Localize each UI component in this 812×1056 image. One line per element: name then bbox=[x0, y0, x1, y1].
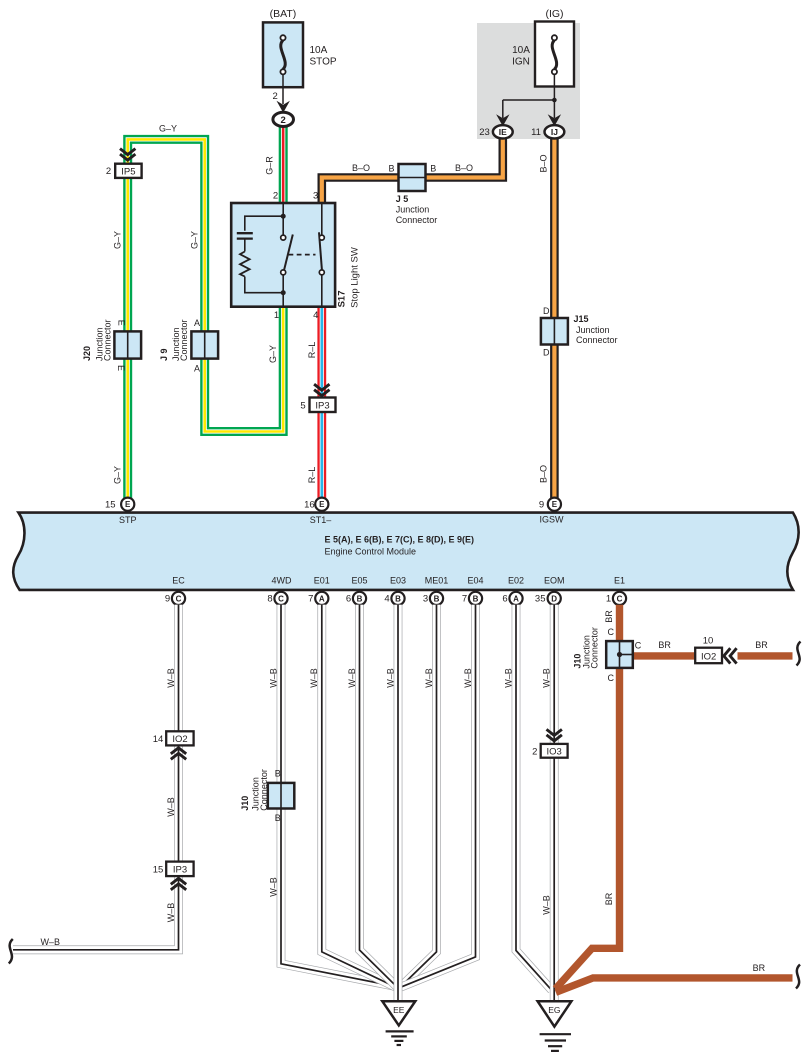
svg-text:W–B: W–B bbox=[309, 668, 319, 688]
svg-text:W–B: W–B bbox=[503, 668, 513, 688]
svg-text:1: 1 bbox=[606, 594, 611, 605]
svg-text:C: C bbox=[607, 673, 614, 683]
resistor symbol bbox=[240, 252, 250, 277]
wire W-B (E05 to EE) bbox=[360, 605, 398, 988]
svg-text:IE: IE bbox=[499, 127, 507, 137]
svg-text:BR: BR bbox=[753, 963, 766, 973]
svg-text:J20: J20 bbox=[82, 346, 92, 361]
svg-text:7: 7 bbox=[462, 594, 467, 605]
svg-text:B–O: B–O bbox=[539, 465, 549, 483]
stop light switch S17 bbox=[231, 203, 335, 307]
svg-text:8: 8 bbox=[267, 594, 272, 605]
svg-text:W–B: W–B bbox=[463, 668, 473, 688]
connector IJ oval bbox=[545, 125, 565, 138]
svg-text:W–B: W–B bbox=[347, 668, 357, 688]
svg-text:B–O: B–O bbox=[539, 154, 549, 172]
wire IG fuse to IE/IJ bbox=[553, 74, 555, 100]
svg-text:E: E bbox=[116, 320, 126, 326]
svg-text:D: D bbox=[551, 594, 557, 603]
wire BR (IO2 chevron to right break) bbox=[738, 652, 793, 659]
svg-text:EC: EC bbox=[172, 575, 185, 585]
svg-text:Stop Light SW: Stop Light SW bbox=[350, 247, 361, 308]
svg-text:BR: BR bbox=[755, 640, 768, 650]
svg-text:G–Y: G–Y bbox=[190, 231, 200, 249]
junction dot bbox=[552, 98, 557, 103]
svg-text:E: E bbox=[125, 500, 131, 509]
svg-text:4: 4 bbox=[384, 594, 389, 605]
wire BR (E1 to J10 down to EG) bbox=[556, 605, 620, 989]
fuse 10A STOP (BAT) bbox=[263, 8, 337, 87]
pin 15 E (STP) bbox=[121, 498, 134, 511]
wire break symbol right (BR lower) bbox=[796, 965, 800, 989]
svg-text:W–B: W–B bbox=[166, 668, 176, 688]
pin 35 D (EOM) bbox=[548, 592, 561, 605]
fuse 10A IGN (IG) bbox=[512, 8, 574, 87]
svg-text:C: C bbox=[176, 594, 182, 603]
pin 1 C (E1) bbox=[613, 592, 626, 605]
svg-text:Junction: Junction bbox=[576, 325, 610, 335]
svg-text:W–B: W–B bbox=[424, 668, 434, 688]
svg-text:E: E bbox=[319, 500, 325, 509]
svg-text:D: D bbox=[543, 347, 550, 357]
svg-text:E03: E03 bbox=[390, 575, 406, 585]
svg-text:(BAT): (BAT) bbox=[270, 8, 297, 20]
svg-text:B: B bbox=[275, 813, 281, 823]
svg-text:W–B: W–B bbox=[542, 895, 552, 915]
connector IP5 with arrow bbox=[120, 149, 135, 161]
svg-text:W–B: W–B bbox=[166, 903, 176, 923]
svg-text:B: B bbox=[357, 594, 363, 603]
svg-text:4WD: 4WD bbox=[272, 575, 293, 585]
svg-text:G–Y: G–Y bbox=[113, 231, 123, 249]
pin 9 E (IGSW) bbox=[548, 498, 561, 511]
svg-text:B–O: B–O bbox=[352, 163, 370, 173]
svg-text:6: 6 bbox=[346, 594, 351, 605]
svg-text:35: 35 bbox=[535, 594, 546, 605]
svg-text:1: 1 bbox=[274, 310, 279, 321]
svg-text:10: 10 bbox=[703, 635, 714, 646]
wire break symbol right (BR at IO2) bbox=[797, 642, 801, 666]
switch contact right bbox=[321, 203, 323, 235]
connector IO2 with arrow (BR wire) bbox=[695, 648, 722, 664]
pin 4 B (E03) bbox=[391, 592, 404, 605]
wire G-R (node 2 to S17 pin 2) bbox=[279, 127, 288, 205]
pin 9 C (EC) bbox=[172, 592, 185, 605]
svg-text:10A: 10A bbox=[512, 45, 530, 56]
ground EE bbox=[382, 1001, 415, 1025]
wire W-B (4WD to J10 to EE) bbox=[281, 605, 398, 987]
svg-text:G–Y: G–Y bbox=[159, 124, 177, 134]
svg-text:10A: 10A bbox=[310, 45, 328, 56]
svg-text:15: 15 bbox=[153, 865, 164, 876]
svg-text:EE: EE bbox=[393, 1005, 405, 1015]
svg-text:R–L: R–L bbox=[307, 342, 317, 359]
svg-text:5: 5 bbox=[300, 400, 305, 411]
svg-text:C: C bbox=[607, 627, 614, 637]
wire W-B (EC to IO2 to IP3 to left break) bbox=[13, 605, 179, 950]
svg-text:2: 2 bbox=[281, 115, 286, 126]
wire W-B (E01 to EE) bbox=[322, 605, 397, 988]
svg-text:Junction: Junction bbox=[396, 205, 430, 215]
svg-text:W–B: W–B bbox=[268, 877, 278, 897]
svg-text:W–B: W–B bbox=[385, 668, 395, 688]
junction connector J9 bbox=[191, 331, 218, 358]
svg-text:2: 2 bbox=[273, 191, 278, 202]
connector IP3 with arrow (R-L wire) bbox=[314, 384, 329, 396]
svg-text:D: D bbox=[543, 306, 550, 316]
svg-text:S17: S17 bbox=[336, 290, 347, 307]
svg-text:16: 16 bbox=[304, 500, 315, 511]
svg-text:B: B bbox=[434, 594, 440, 603]
svg-text:Engine Control Module: Engine Control Module bbox=[325, 547, 417, 557]
svg-text:E: E bbox=[116, 365, 126, 371]
node 2 oval bbox=[273, 112, 294, 126]
svg-text:C: C bbox=[635, 641, 642, 651]
svg-text:IJ: IJ bbox=[551, 127, 558, 137]
svg-text:BR: BR bbox=[658, 640, 671, 650]
svg-text:(IG): (IG) bbox=[545, 8, 563, 20]
svg-text:11: 11 bbox=[531, 127, 541, 138]
arrow into IE bbox=[496, 114, 509, 126]
svg-text:STOP: STOP bbox=[310, 57, 337, 68]
svg-text:B: B bbox=[388, 164, 394, 174]
svg-text:W–B: W–B bbox=[40, 937, 60, 947]
svg-text:B: B bbox=[473, 594, 479, 603]
pin 3 B (ME01) bbox=[430, 592, 443, 605]
svg-text:Connector: Connector bbox=[396, 215, 438, 225]
svg-text:EG: EG bbox=[548, 1005, 560, 1015]
ECM band Engine Control Module bbox=[13, 513, 798, 590]
wire R-L (IP3 to ECM ST1-) bbox=[317, 411, 326, 498]
svg-text:E 5(A), E 6(B), E 7(C), E 8(D): E 5(A), E 6(B), E 7(C), E 8(D), E 9(E) bbox=[325, 534, 475, 544]
svg-text:B: B bbox=[430, 164, 436, 174]
junction connector J15 bbox=[541, 318, 568, 345]
svg-text:G–R: G–R bbox=[265, 156, 275, 175]
svg-text:Connector: Connector bbox=[259, 769, 269, 811]
svg-text:Connector: Connector bbox=[576, 335, 618, 345]
svg-text:9: 9 bbox=[539, 500, 544, 511]
pin 7 A (E01) bbox=[315, 592, 328, 605]
pin 16 E (ST1-) bbox=[315, 498, 328, 511]
svg-text:A: A bbox=[194, 364, 200, 374]
wire W-B (E02 to EG) bbox=[516, 605, 552, 991]
svg-text:7: 7 bbox=[308, 594, 313, 605]
svg-text:2: 2 bbox=[106, 166, 111, 177]
pin 7 B (E04) bbox=[469, 592, 482, 605]
connector IP3 with arrow (EC wire) bbox=[166, 862, 193, 877]
svg-text:2: 2 bbox=[532, 746, 537, 757]
svg-text:23: 23 bbox=[479, 127, 490, 138]
svg-text:W–B: W–B bbox=[268, 668, 278, 688]
ground EG bbox=[538, 1001, 572, 1026]
wire break symbol left bbox=[9, 939, 13, 964]
svg-text:B–O: B–O bbox=[455, 163, 473, 173]
junction connector J20 bbox=[114, 331, 141, 358]
svg-text:6: 6 bbox=[502, 594, 507, 605]
svg-text:BR: BR bbox=[604, 610, 614, 623]
svg-text:B: B bbox=[395, 594, 401, 603]
junction connector J10 (E1 wire) bbox=[606, 641, 633, 668]
svg-text:15: 15 bbox=[105, 500, 116, 511]
svg-text:3: 3 bbox=[313, 191, 318, 202]
svg-text:14: 14 bbox=[153, 734, 164, 745]
connector IO3 with arrow (EOM wire) bbox=[547, 729, 562, 741]
svg-text:J10: J10 bbox=[240, 796, 250, 811]
wire W-B (E04 to EE) bbox=[401, 605, 476, 988]
svg-text:C: C bbox=[617, 594, 623, 603]
svg-text:EOM: EOM bbox=[544, 575, 565, 585]
IG relay block gray box bbox=[477, 23, 580, 139]
wire G-Y (IP5 to J20 to ECM STP) bbox=[123, 177, 132, 499]
wire G-Y (S17 pin 1 to J9 to IP5) bbox=[128, 139, 284, 431]
pin 6 B (E05) bbox=[353, 592, 366, 605]
switch contact left bbox=[284, 235, 293, 270]
svg-text:C: C bbox=[278, 594, 284, 603]
connector IO2 with arrow (EC wire) bbox=[166, 731, 193, 745]
wire R-L (S17 pin 4 to IP3) bbox=[317, 306, 326, 399]
arrow into node 2 bbox=[277, 101, 290, 113]
svg-text:E01: E01 bbox=[314, 575, 330, 585]
svg-text:J 9: J 9 bbox=[159, 348, 169, 361]
svg-text:2: 2 bbox=[273, 91, 278, 102]
svg-text:J 5: J 5 bbox=[396, 194, 409, 204]
svg-text:IP5: IP5 bbox=[121, 167, 135, 178]
svg-text:ME01: ME01 bbox=[425, 575, 449, 585]
svg-text:A: A bbox=[194, 318, 200, 328]
svg-text:ST1–: ST1– bbox=[310, 515, 332, 525]
svg-text:IGN: IGN bbox=[512, 56, 530, 67]
svg-text:A: A bbox=[513, 594, 519, 603]
connector IE oval bbox=[493, 125, 513, 138]
svg-text:IO2: IO2 bbox=[172, 734, 187, 745]
pin 6 A (E02) bbox=[509, 592, 522, 605]
wire BR (J10 to IO2) bbox=[631, 652, 696, 659]
svg-text:E: E bbox=[552, 500, 558, 509]
dashed link bbox=[289, 254, 316, 256]
wire W-B (E03 straight to EE) bbox=[394, 605, 403, 1002]
svg-text:G–Y: G–Y bbox=[268, 345, 278, 363]
svg-text:G–Y: G–Y bbox=[113, 466, 123, 484]
svg-text:Connector: Connector bbox=[103, 319, 113, 361]
svg-text:IO2: IO2 bbox=[701, 651, 716, 662]
wire B-O (IE to J5 to S17 pin 3) bbox=[322, 139, 503, 205]
svg-text:E02: E02 bbox=[508, 575, 524, 585]
svg-text:W–B: W–B bbox=[166, 797, 176, 817]
svg-text:IP3: IP3 bbox=[173, 865, 187, 876]
svg-text:IO3: IO3 bbox=[547, 746, 562, 757]
svg-text:B: B bbox=[275, 769, 281, 779]
wire BR (right break to EG) bbox=[556, 978, 793, 992]
wire BAT fuse to node 2 bbox=[282, 74, 284, 104]
svg-text:STP: STP bbox=[119, 515, 137, 525]
svg-text:E05: E05 bbox=[351, 575, 367, 585]
wire W-B (EOM to IO3 to EG) bbox=[550, 605, 559, 1001]
junction connector J10 (4WD wire) bbox=[268, 783, 295, 809]
svg-text:Connector: Connector bbox=[179, 319, 189, 361]
junction connector J5 bbox=[399, 164, 426, 191]
svg-text:W–B: W–B bbox=[542, 668, 552, 688]
arrow into IJ bbox=[548, 114, 561, 126]
svg-text:A: A bbox=[319, 594, 325, 603]
pin 8 C (4WD) bbox=[274, 592, 287, 605]
svg-text:IP3: IP3 bbox=[315, 400, 329, 411]
svg-text:J15: J15 bbox=[574, 314, 589, 324]
svg-text:9: 9 bbox=[165, 594, 170, 605]
svg-text:3: 3 bbox=[423, 594, 428, 605]
wire B-O (IJ to J15 to ECM IGSW) bbox=[550, 138, 559, 498]
svg-text:Connector: Connector bbox=[590, 627, 600, 669]
capacitor symbol bbox=[237, 232, 253, 234]
svg-text:4: 4 bbox=[313, 310, 318, 321]
svg-text:E04: E04 bbox=[467, 575, 483, 585]
svg-text:BR: BR bbox=[604, 892, 614, 905]
wire W-B (ME01 to EE) bbox=[400, 605, 437, 988]
svg-text:IGSW: IGSW bbox=[540, 515, 565, 525]
svg-text:E1: E1 bbox=[614, 575, 625, 585]
svg-text:R–L: R–L bbox=[307, 467, 317, 484]
